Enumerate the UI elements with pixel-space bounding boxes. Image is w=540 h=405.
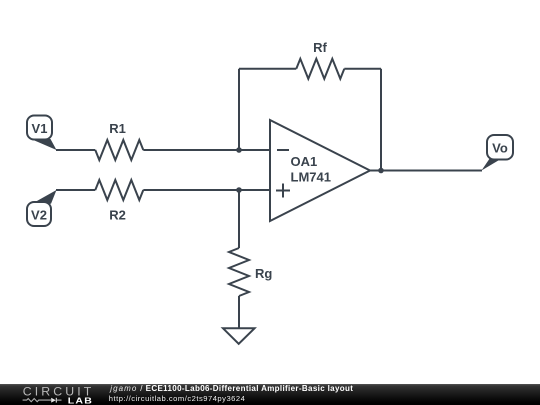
wire feedback left vertical — [238, 69, 240, 150]
resistor Rf — [296, 40, 344, 79]
svg-text:LAB: LAB — [68, 397, 93, 405]
svg-text:LM741: LM741 — [291, 170, 331, 185]
flag Vo — [482, 135, 514, 171]
ground — [223, 328, 255, 344]
CircuitLab logo — [0, 0, 105, 405]
wire Rg to ground — [238, 296, 240, 328]
svg-text:R1: R1 — [109, 121, 126, 136]
svg-text:Rf: Rf — [313, 40, 327, 55]
wire R2 to op-amp non-inverting input — [143, 189, 270, 191]
svg-text:OA1: OA1 — [291, 154, 318, 169]
wire feedback top left — [239, 68, 296, 70]
wire R1 to op-amp inverting input — [143, 149, 270, 151]
wire feedback right vertical — [380, 69, 382, 171]
footer credit line 1 — [110, 385, 353, 393]
node junction output — [378, 168, 384, 174]
resistor R2 — [95, 180, 143, 223]
wire V1 to R1 — [56, 149, 95, 151]
svg-text:Vo: Vo — [492, 141, 508, 156]
wire junction to Rg — [238, 190, 240, 248]
node junction bottom (non-inverting input) — [236, 187, 242, 193]
svg-text:R2: R2 — [109, 208, 126, 223]
op-amp OA1 — [270, 120, 370, 221]
resistor R1 — [95, 121, 143, 160]
footer credit line 2 — [109, 395, 246, 403]
node junction top (inverting input) — [236, 147, 242, 153]
wire feedback top right — [344, 68, 381, 70]
footer bar — [0, 384, 540, 405]
wire op-amp output — [370, 170, 482, 172]
resistor Rg — [229, 248, 272, 296]
flag V2 — [27, 190, 57, 226]
svg-text:Rg: Rg — [255, 266, 272, 281]
flag V1 — [27, 116, 57, 151]
wire V2 to R2 — [56, 189, 95, 191]
